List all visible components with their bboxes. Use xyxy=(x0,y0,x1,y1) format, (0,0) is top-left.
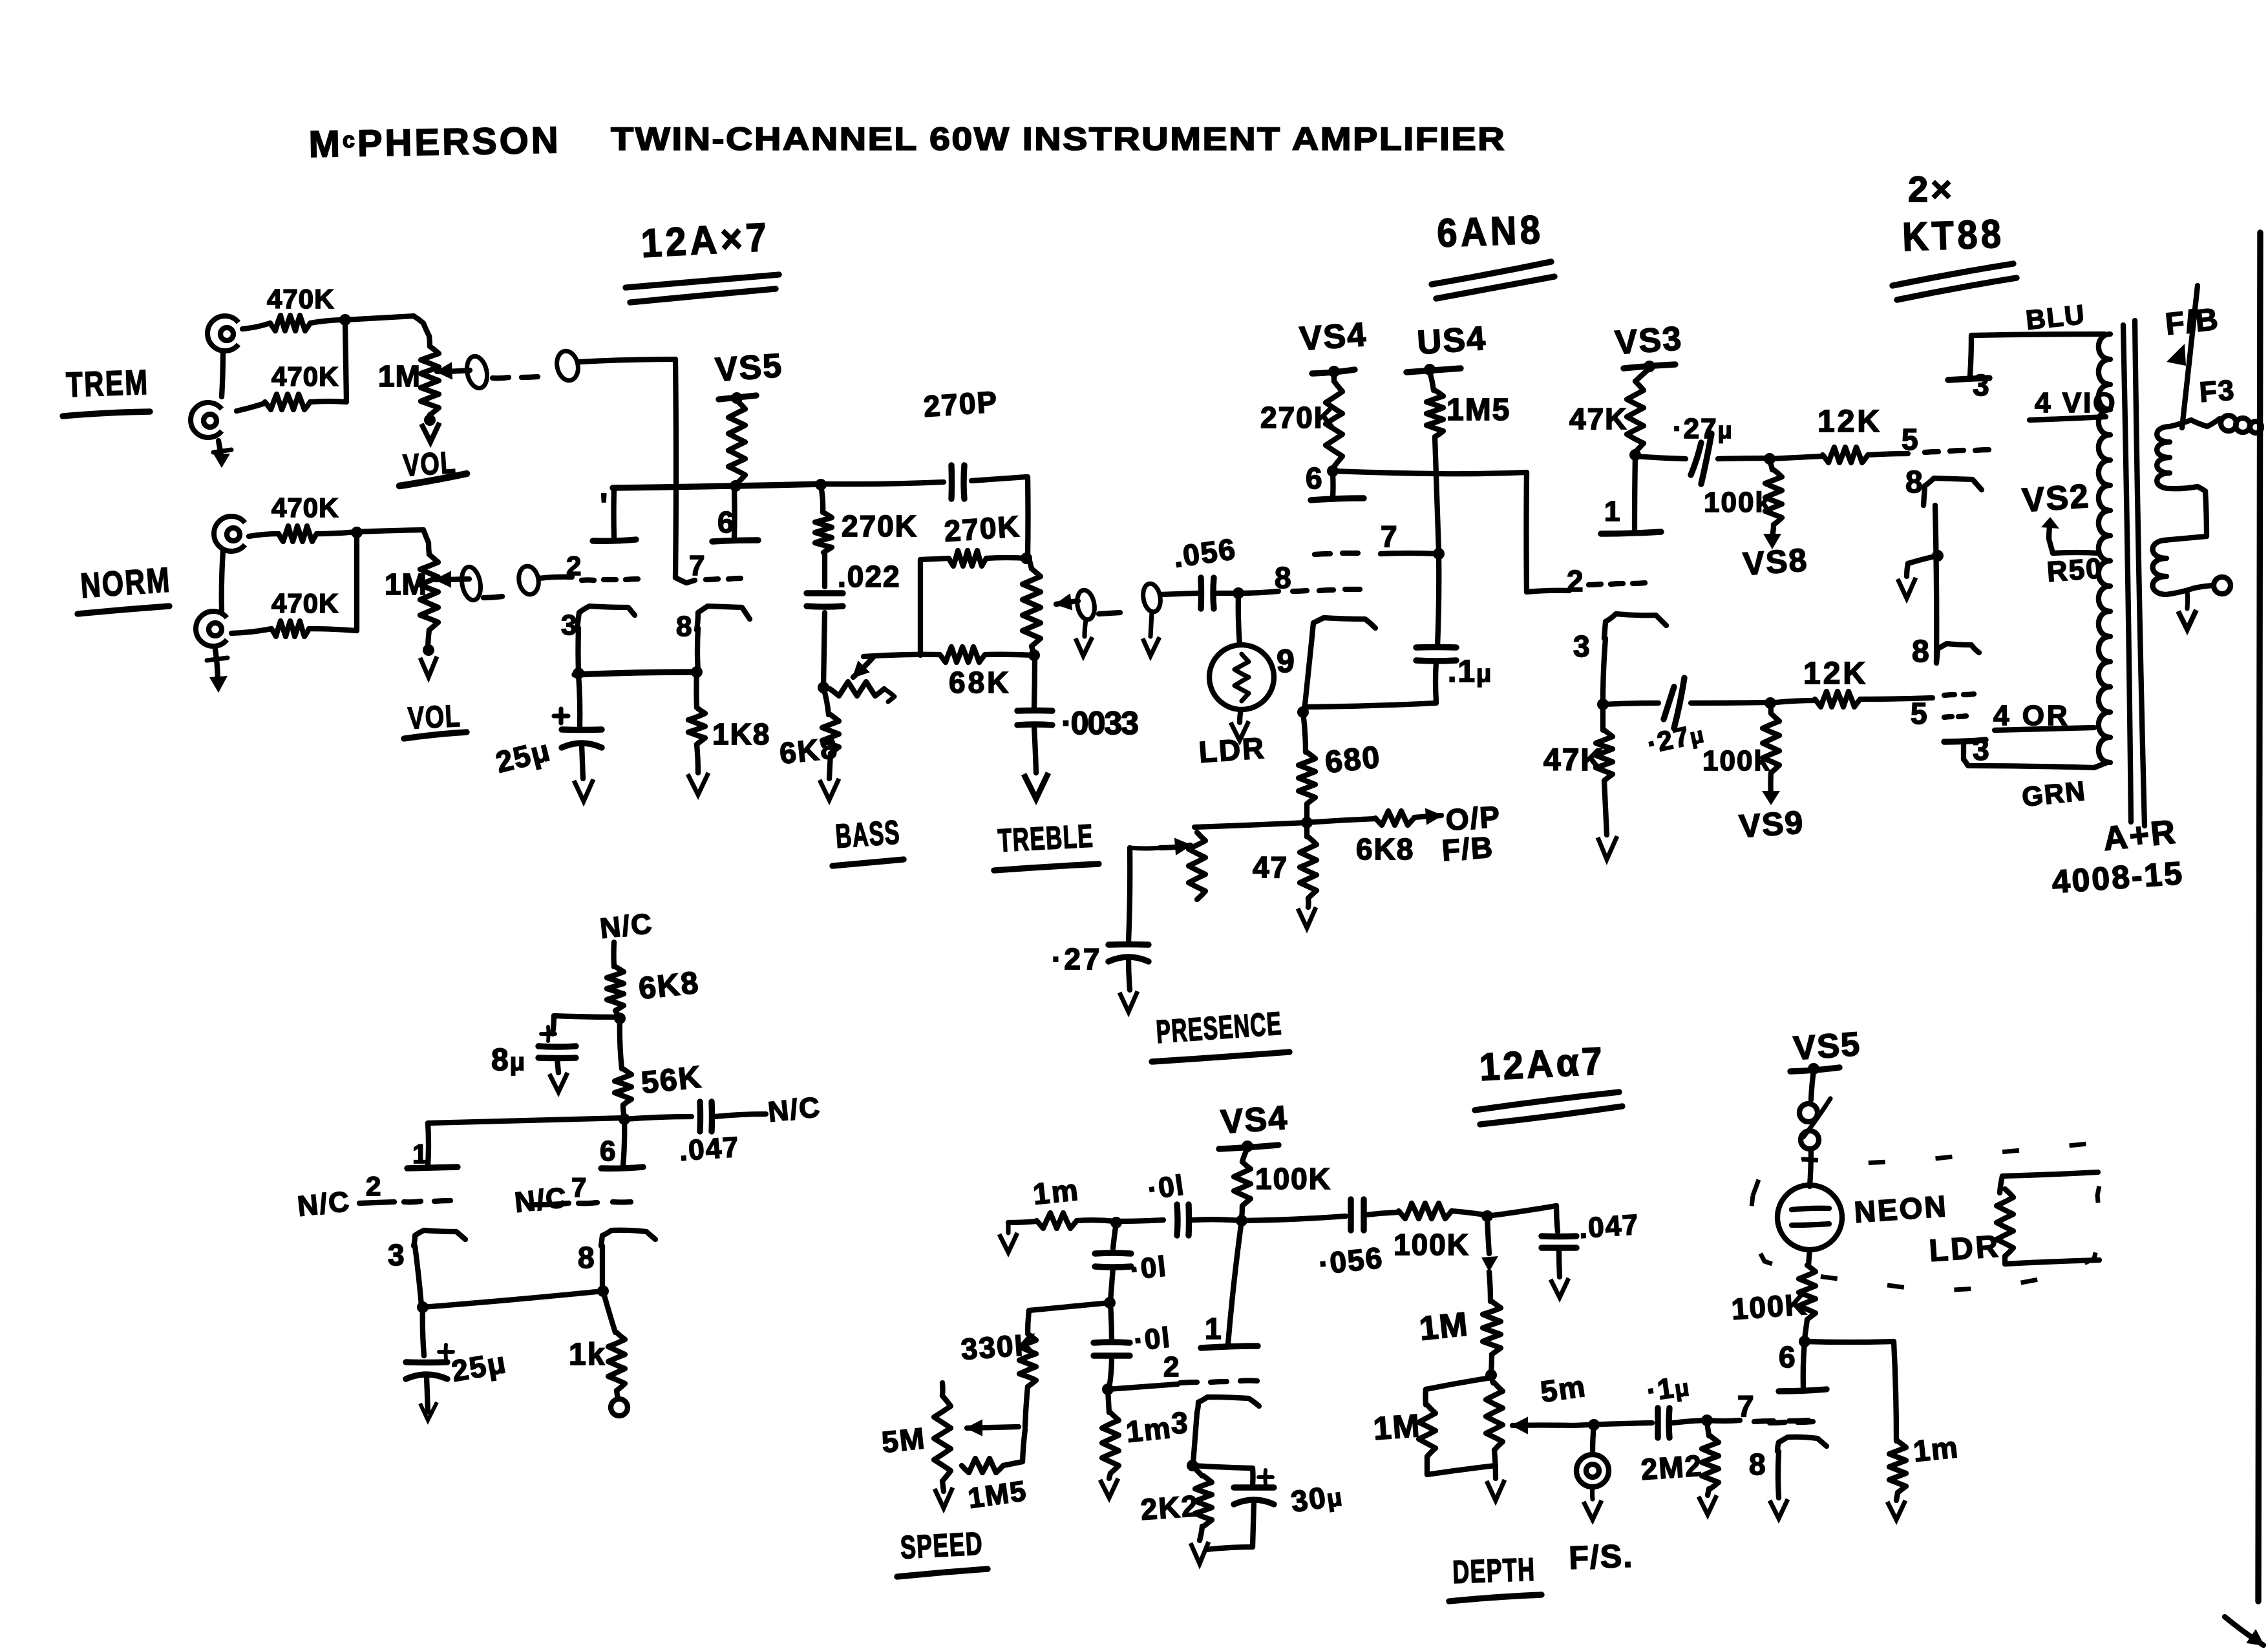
svg-text:F/B: F/B xyxy=(1441,830,1495,867)
svg-text:3: 3 xyxy=(1171,1406,1189,1440)
svg-text:5: 5 xyxy=(1911,697,1929,730)
svg-text:US4: US4 xyxy=(1416,320,1488,362)
svg-text:100k: 100k xyxy=(1702,745,1771,777)
svg-text:1M: 1M xyxy=(1417,1305,1470,1348)
svg-text:7: 7 xyxy=(571,1172,588,1203)
svg-text:': ' xyxy=(600,487,609,525)
svg-text:BASS: BASS xyxy=(834,814,902,856)
svg-text:8: 8 xyxy=(1749,1447,1767,1481)
svg-text:12Aα7: 12Aα7 xyxy=(1478,1039,1606,1089)
svg-text:5M: 5M xyxy=(880,1421,927,1459)
svg-text:6AN8: 6AN8 xyxy=(1436,207,1544,256)
svg-text:.047: .047 xyxy=(678,1131,741,1167)
svg-text:6K8: 6K8 xyxy=(1356,832,1414,866)
svg-text:TWIN-CHANNEL 60W INSTRUMENT AM: TWIN-CHANNEL 60W INSTRUMENT AMPLIFIER xyxy=(611,121,1506,157)
svg-text:3: 3 xyxy=(1973,733,1991,766)
svg-text:12A×7: 12A×7 xyxy=(640,215,771,266)
svg-text:100k: 100k xyxy=(1704,487,1772,518)
svg-text:1: 1 xyxy=(1205,1312,1223,1345)
svg-text:1k: 1k xyxy=(569,1338,606,1372)
svg-text:BLU: BLU xyxy=(2024,299,2087,335)
svg-text:7: 7 xyxy=(689,550,706,582)
svg-text:2M2: 2M2 xyxy=(1640,1448,1704,1486)
svg-text:5: 5 xyxy=(1902,423,1920,456)
svg-text:470K: 470K xyxy=(271,492,339,523)
svg-text:1: 1 xyxy=(412,1139,429,1169)
svg-text:2: 2 xyxy=(1567,564,1585,598)
svg-text:N/C: N/C xyxy=(767,1091,822,1128)
svg-text:8: 8 xyxy=(1905,465,1924,500)
svg-text:1M: 1M xyxy=(385,567,427,601)
svg-text:100K: 100K xyxy=(1255,1162,1331,1195)
svg-text:1K8: 1K8 xyxy=(712,717,770,751)
svg-text:LDR: LDR xyxy=(1928,1229,2002,1268)
svg-text:N/C: N/C xyxy=(599,908,654,945)
svg-text:KT88: KT88 xyxy=(1902,212,2005,260)
svg-text:VS9: VS9 xyxy=(1738,804,1805,845)
svg-text:·0033: ·0033 xyxy=(1061,705,1138,741)
svg-text:12K: 12K xyxy=(1803,657,1868,691)
svg-text:8: 8 xyxy=(676,611,693,642)
svg-text:1M5: 1M5 xyxy=(1447,393,1510,427)
svg-text:270K: 270K xyxy=(943,509,1021,548)
svg-text:3: 3 xyxy=(561,609,578,641)
svg-text:.047: .047 xyxy=(1578,1209,1640,1245)
svg-text:1m: 1m xyxy=(1125,1411,1174,1449)
svg-text:2K2: 2K2 xyxy=(1139,1489,1200,1526)
svg-text:VS3: VS3 xyxy=(1614,320,1684,362)
svg-text:3: 3 xyxy=(388,1238,406,1272)
svg-text:100K: 100K xyxy=(1730,1287,1808,1326)
svg-text:2: 2 xyxy=(366,1171,382,1201)
svg-text:VS8: VS8 xyxy=(1742,542,1809,582)
svg-text:8: 8 xyxy=(1912,635,1931,669)
svg-text:A+R: A+R xyxy=(2101,813,2179,858)
svg-text:·056: ·056 xyxy=(1317,1241,1385,1281)
svg-text:NORM: NORM xyxy=(79,560,173,605)
svg-text:1m: 1m xyxy=(1912,1430,1961,1468)
svg-text:SPEED: SPEED xyxy=(900,1525,984,1566)
svg-text:R50: R50 xyxy=(2046,552,2104,588)
svg-text:2: 2 xyxy=(566,551,582,581)
svg-text:N/C: N/C xyxy=(513,1182,569,1219)
svg-text:6: 6 xyxy=(600,1135,617,1167)
svg-text:·27μ: ·27μ xyxy=(1673,413,1733,445)
svg-text:7: 7 xyxy=(1737,1389,1755,1423)
svg-text:8: 8 xyxy=(1275,561,1293,594)
svg-text:N/C: N/C xyxy=(296,1186,352,1223)
svg-text:270P: 270P xyxy=(922,384,999,423)
svg-text:47: 47 xyxy=(1253,850,1288,884)
svg-text:TREM: TREM xyxy=(65,363,149,405)
svg-text:47K: 47K xyxy=(1543,743,1604,777)
svg-text:470K: 470K xyxy=(267,284,334,314)
svg-text:12K: 12K xyxy=(1818,405,1882,439)
svg-text:LDR: LDR xyxy=(1198,731,1267,769)
svg-text:NEON: NEON xyxy=(1853,1189,1949,1229)
svg-text:270K: 270K xyxy=(1260,401,1337,434)
svg-text:9: 9 xyxy=(1277,643,1296,679)
svg-text:VS5: VS5 xyxy=(1792,1025,1862,1067)
svg-text:7: 7 xyxy=(1381,520,1399,553)
svg-text:6: 6 xyxy=(1779,1340,1797,1374)
svg-text:3: 3 xyxy=(1573,629,1591,663)
svg-text:VS4: VS4 xyxy=(1220,1099,1289,1141)
svg-text:6: 6 xyxy=(717,505,736,539)
svg-text:1: 1 xyxy=(1604,496,1621,527)
svg-text:470K: 470K xyxy=(271,361,339,392)
svg-text:VS4: VS4 xyxy=(1298,316,1368,358)
svg-text:100K: 100K xyxy=(1394,1228,1470,1261)
svg-text:VS5: VS5 xyxy=(714,347,784,389)
svg-text:47K: 47K xyxy=(1569,402,1627,436)
svg-text:5m: 5m xyxy=(1538,1369,1588,1409)
svg-text:DEPTH: DEPTH xyxy=(1452,1551,1536,1590)
svg-text:·0l: ·0l xyxy=(1129,1250,1169,1286)
svg-text:F3: F3 xyxy=(2198,374,2236,408)
svg-text:3: 3 xyxy=(1973,368,1991,402)
svg-text:1M: 1M xyxy=(378,359,421,393)
svg-text:1m: 1m xyxy=(1032,1173,1082,1211)
svg-text:·27: ·27 xyxy=(1052,942,1102,976)
svg-text:TREBLE: TREBLE xyxy=(997,817,1095,859)
svg-text:VS2: VS2 xyxy=(2021,478,2091,520)
svg-text:330K: 330K xyxy=(960,1327,1038,1366)
svg-text:.022: .022 xyxy=(838,560,901,593)
svg-text:6: 6 xyxy=(1306,461,1324,495)
svg-text:270K: 270K xyxy=(842,509,918,543)
svg-text:1M: 1M xyxy=(1372,1407,1422,1447)
svg-text:56K: 56K xyxy=(640,1060,704,1100)
svg-text:·0l: ·0l xyxy=(1146,1169,1187,1206)
svg-text:680: 680 xyxy=(1324,740,1383,780)
svg-text:F/S.: F/S. xyxy=(1568,1538,1634,1576)
svg-text:470K: 470K xyxy=(271,588,339,618)
svg-text:6K8: 6K8 xyxy=(637,965,701,1006)
svg-text:2×: 2× xyxy=(1908,169,1955,209)
svg-text:2: 2 xyxy=(1163,1351,1180,1383)
svg-text:68K: 68K xyxy=(949,666,1011,699)
svg-text:8: 8 xyxy=(578,1241,596,1274)
svg-text:·0l: ·0l xyxy=(1132,1321,1172,1357)
